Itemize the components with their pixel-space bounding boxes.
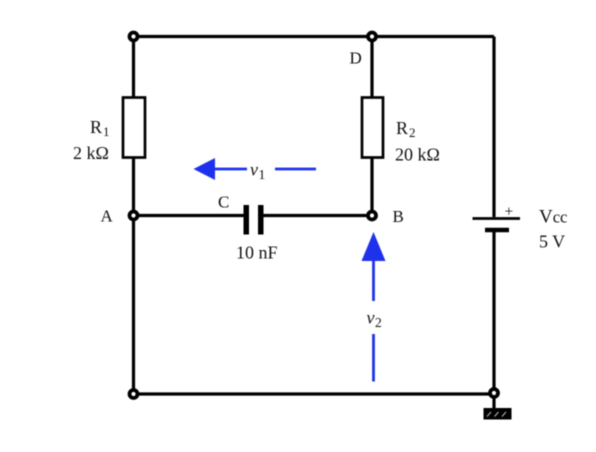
svg-text:C: C xyxy=(218,193,229,212)
svg-text:v1: v1 xyxy=(250,160,265,183)
svg-text:5 V: 5 V xyxy=(539,232,565,252)
node bottom-left corner xyxy=(130,390,138,398)
svg-text:10 nF: 10 nF xyxy=(236,243,278,263)
ground symbol xyxy=(484,408,512,420)
wire top rail from top-left corner to top-right corner xyxy=(134,35,495,38)
svg-text:D: D xyxy=(350,49,362,68)
battery Vcc bottom short plate xyxy=(485,228,509,233)
battery Vcc top long plate xyxy=(473,217,521,220)
resistor R2 body xyxy=(362,98,383,158)
wire right rail lower (battery bottom plate to bottom rail) xyxy=(492,232,495,395)
svg-text:20 kΩ: 20 kΩ xyxy=(395,145,440,165)
resistor R1 body xyxy=(123,98,145,158)
svg-text:+: + xyxy=(505,204,514,221)
svg-text:R2: R2 xyxy=(396,118,416,140)
svg-text:v2: v2 xyxy=(367,308,382,331)
arrow v2 (points up, below node B) xyxy=(362,232,386,382)
wire from node A to capacitor left plate xyxy=(134,214,244,217)
svg-text:R1: R1 xyxy=(90,117,110,139)
wire from capacitor right plate to node B xyxy=(264,214,373,217)
svg-text:A: A xyxy=(101,207,114,226)
node bottom-right corner xyxy=(490,389,498,397)
capacitor C right plate xyxy=(258,205,264,235)
wire from node D down to node B xyxy=(370,37,373,216)
arrow v1 (points left, above capacitor) xyxy=(194,158,317,180)
svg-text:Vcc: Vcc xyxy=(539,207,567,228)
node A xyxy=(130,212,138,220)
capacitor C left plate xyxy=(244,205,250,235)
wire bottom rail xyxy=(134,392,495,395)
node B xyxy=(368,212,376,220)
node top-left corner xyxy=(130,33,138,41)
svg-text:B: B xyxy=(393,207,404,226)
wire ground stub below bottom-right node xyxy=(492,394,495,409)
wire left rail xyxy=(132,37,135,395)
node D xyxy=(368,33,376,41)
svg-text:2 kΩ: 2 kΩ xyxy=(73,143,109,163)
wire right rail upper (top rail down to battery top plate) xyxy=(492,37,495,218)
